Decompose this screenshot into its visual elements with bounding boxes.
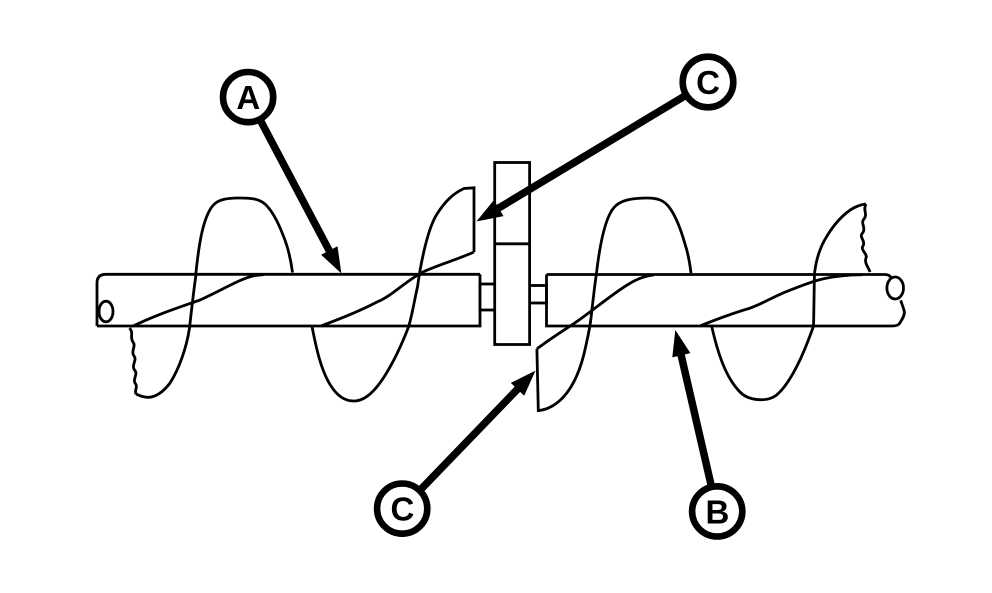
svg-text:B: B <box>705 493 729 530</box>
svg-text:C: C <box>390 491 414 528</box>
svg-text:C: C <box>696 64 720 101</box>
svg-text:A: A <box>236 79 260 116</box>
